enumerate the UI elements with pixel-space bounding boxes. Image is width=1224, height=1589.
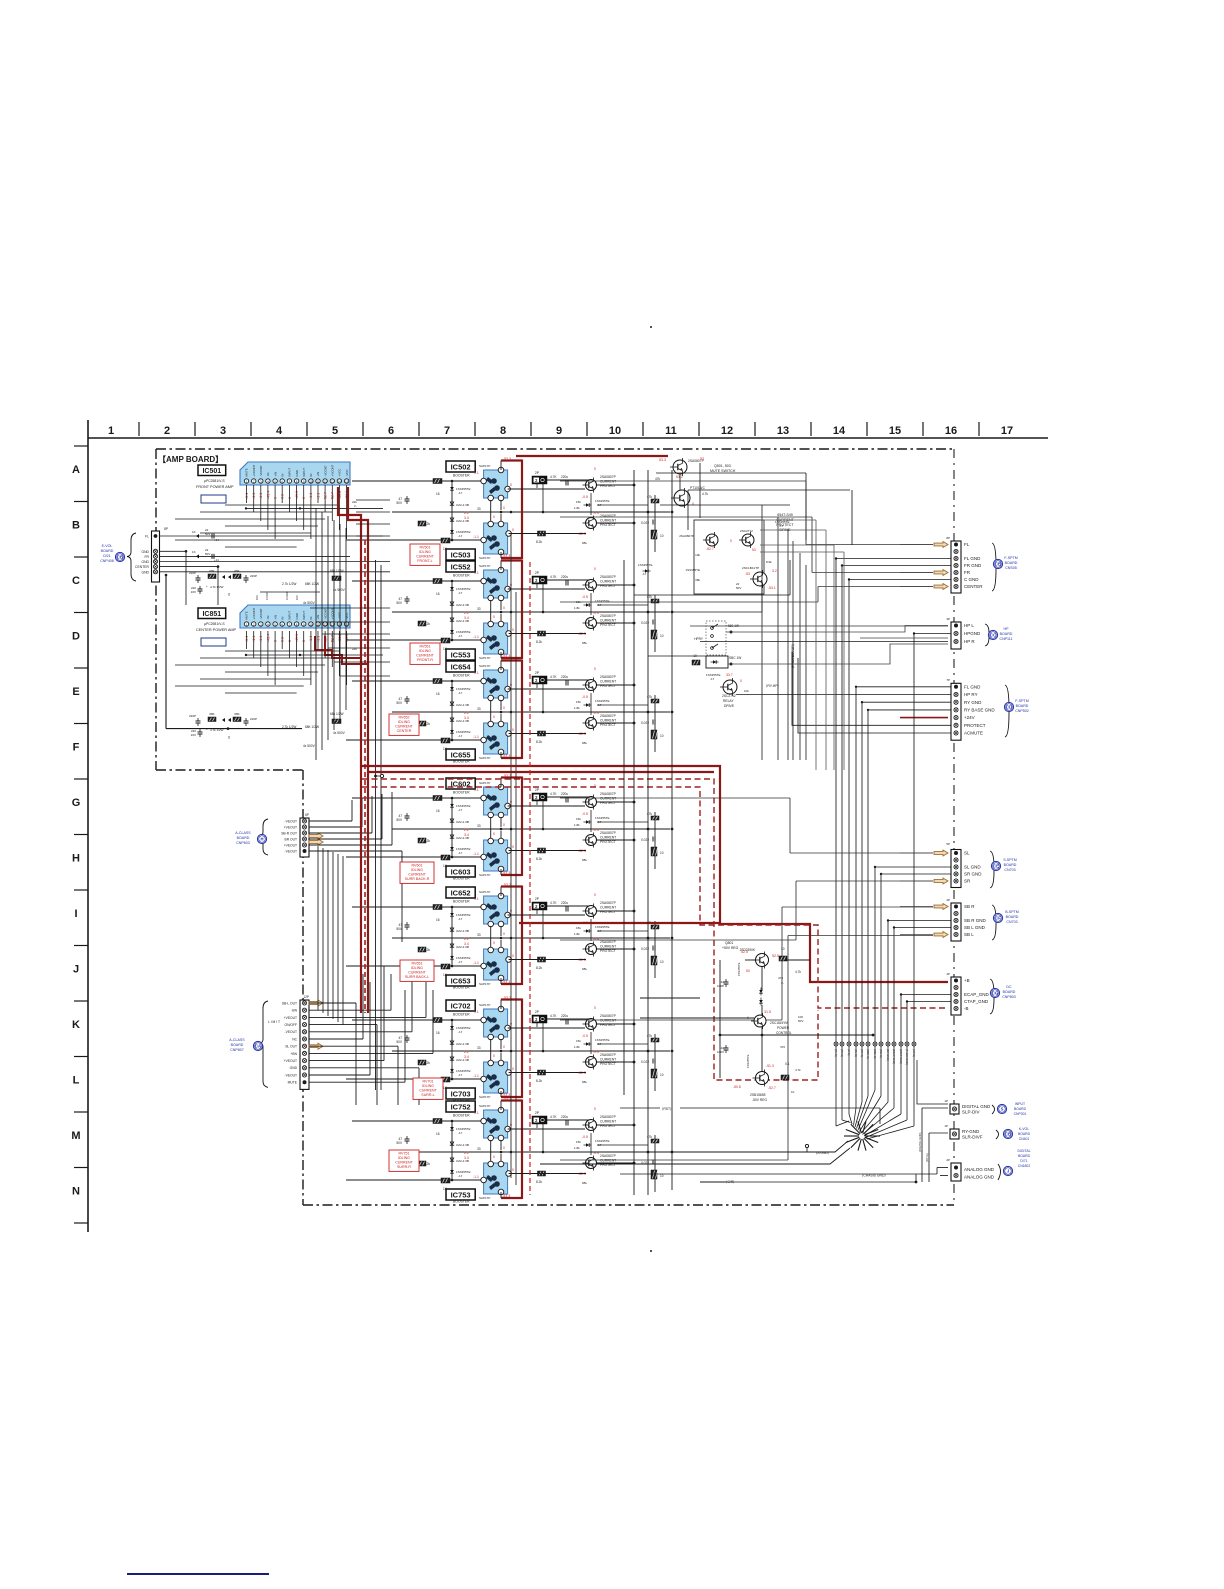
svg-text:1.1: 1.1 [474,671,479,675]
svg-text:CURRENT: CURRENT [600,945,616,949]
CNP111 circled ref [988,630,997,639]
svg-text:+VCONT: +VCONT [252,464,256,476]
svg-text:-17: -17 [458,960,463,964]
svg-text:220u: 220u [561,901,568,905]
svg-text:B-SPTM: B-SPTM [1005,910,1019,914]
svg-text:-17: -17 [458,1030,463,1034]
IC501 22k bus [246,507,383,509]
svg-text:CURRENT: CURRENT [600,1159,616,1163]
svg-text:-VCONT: -VCONT [323,465,327,476]
svg-text:F-SPTM: F-SPTM [1004,556,1017,560]
svg-text:53.2: 53.2 [676,475,683,479]
svg-text:50V: 50V [205,552,210,556]
middle rail 2 [633,470,635,1195]
svg-text:BOOSTER: BOOSTER [453,474,470,478]
svg-text:SAP17P: SAP17P [479,1003,490,1007]
svg-text:(C-G): (C-G) [847,1049,851,1056]
booster pair IC652/IC653 [392,883,670,990]
svg-text:3.4: 3.4 [464,833,469,837]
svg-text:SAP17P: SAP17P [479,464,490,468]
svg-text:-17: -17 [458,534,463,538]
svg-text:53.3: 53.3 [504,1097,511,1101]
svg-text:INPUT: INPUT [1015,1102,1025,1106]
svg-text:220P: 220P [250,717,257,721]
booster pair IC602/IC603 [392,774,670,881]
svg-text:CNP807: CNP807 [230,1048,244,1052]
svg-text:4.7k 1/2W: 4.7k 1/2W [210,585,224,589]
svg-text:(SBR-G): (SBR-G) [866,1049,870,1059]
a gnd stub [805,1144,808,1147]
svg-text:ANALOG GND: ANALOG GND [964,1167,995,1172]
svg-text:+14: +14 [214,538,219,542]
svg-text:15k: 15k [576,926,581,930]
svg-text:IN: IN [280,617,284,620]
connector CN703-S [951,850,961,888]
svg-text:-52.7: -52.7 [768,1086,776,1090]
svg-text:10: 10 [660,734,664,738]
svg-text:J: J [73,964,79,976]
svg-text:470: 470 [778,976,783,980]
connector CNP603 A-CLASS [300,818,309,857]
CNP603 arrows [309,833,323,839]
svg-text:SLR-DIVF: SLR-DIVF [962,1135,983,1140]
svg-text:4x 500V: 4x 500V [303,601,316,605]
svg-text:SURR BACK-L: SURR BACK-L [405,975,429,979]
svg-text:CURRENT: CURRENT [600,1120,616,1124]
svg-text:IC653: IC653 [451,976,471,985]
svg-text:10: 10 [660,1174,664,1178]
CN703S circled ref [991,861,1000,870]
svg-text:A-CLASS: A-CLASS [235,831,251,835]
svg-text:BOOSTER: BOOSTER [453,1200,470,1204]
board border left lower [302,770,304,1205]
svg-text:-1.1: -1.1 [473,635,479,639]
svg-text:1.1: 1.1 [474,897,479,901]
svg-text:4.7K: 4.7K [550,901,557,905]
svg-text:2SA0807P: 2SA0807P [600,1115,617,1119]
svg-text:PT1014(C: PT1014(C [690,486,706,490]
svg-text:0: 0 [512,845,514,849]
svg-text:68k: 68k [582,1080,587,1084]
svg-text:1.8k: 1.8k [574,823,580,827]
connector CNP502 [951,683,961,740]
svg-text:8.2k: 8.2k [536,1079,542,1083]
svg-text:CURRENT: CURRENT [419,1089,437,1093]
svg-text:+VEOUT: +VEOUT [284,843,297,847]
svg-text:SB R: SB R [964,904,975,909]
svg-text:BOARD: BOARD [1000,632,1013,636]
svg-text:CNP408: CNP408 [100,559,114,563]
svg-text:2.2: 2.2 [464,1151,469,1155]
svg-text:-50.8: -50.8 [733,1085,741,1089]
rail junctions [647,511,650,514]
svg-text:A: A [72,464,80,476]
svg-text:4P: 4P [946,898,950,902]
svg-text:IDLING: IDLING [398,1156,410,1160]
svg-text:+IN: +IN [316,615,320,620]
svg-text:SB-L OUT: SB-L OUT [282,1001,297,1005]
hp l feed [690,625,905,627]
svg-text:220P: 220P [250,574,257,578]
svg-text:ECAP_GND: ECAP_GND [964,992,990,997]
svg-text:SAP17P: SAP17P [479,1196,490,1200]
svg-text:-52.3: -52.3 [578,1172,586,1176]
svg-text:8: 8 [500,425,506,437]
svg-text:E-VOL: E-VOL [102,544,113,548]
CN703B circled ref [993,913,1002,922]
svg-text:SBC 1W: SBC 1W [729,656,741,660]
svg-text:CENTER: CENTER [964,584,983,589]
svg-text:53.3: 53.3 [659,458,666,462]
svg-text:2.7k 1/2W: 2.7k 1/2W [282,582,296,586]
svg-text:-0.5: -0.5 [582,1135,588,1139]
svg-text:ON/OFF: ON/OFF [285,1023,297,1027]
svg-text:+24V: +24V [964,715,975,720]
transistor Q501 mute switch [673,460,687,474]
connector analog gnd [951,1163,961,1181]
svg-text:10: 10 [660,960,664,964]
svg-text:FRONT-L: FRONT-L [417,559,432,563]
svg-text:-IN: -IN [266,473,270,477]
svg-text:1SS355TE: 1SS355TE [638,563,653,567]
svg-text:(ECAP GND): (ECAP GND) [892,1049,896,1064]
connector digital gnd [950,1104,959,1114]
svg-text:UZ2-2.3B: UZ2-2.3B [456,1042,469,1046]
svg-text:0: 0 [594,1006,596,1010]
svg-text:D/21: D/21 [103,554,111,558]
connector ry-gnd [950,1129,959,1139]
svg-text:1.8k: 1.8k [574,1045,580,1049]
CNP603 wires [309,820,352,822]
svg-text:-VCONT: -VCONT [259,608,263,619]
svg-text:50V: 50V [798,1019,803,1023]
svg-text:CURRENT: CURRENT [600,836,616,840]
diode d1 [645,569,648,573]
svg-text:CNP301: CNP301 [1014,1112,1027,1116]
svg-text:SAP17P: SAP17P [479,656,490,660]
A-CLASS circled ref 2 [253,1041,262,1050]
svg-text:-17: -17 [458,1131,463,1135]
svg-text:+IN: +IN [273,615,277,620]
svg-text:1SS355TE: 1SS355TE [737,962,741,976]
svg-text:52.5: 52.5 [772,954,779,958]
svg-text:1.8k: 1.8k [574,606,580,610]
svg-text:UZ2-2.3B: UZ2-2.3B [456,703,469,707]
svg-text:50V: 50V [205,532,210,536]
svg-text:PROTECT: PROTECT [600,840,616,844]
svg-text:0: 0 [594,1107,596,1111]
svg-text:-52.7: -52.7 [706,547,714,551]
footer line [127,1573,269,1575]
relay HPRY [706,621,726,655]
svg-text:10: 10 [660,851,664,855]
svg-text:16V: 16V [191,590,196,594]
svg-text:-17: -17 [458,1073,463,1077]
signal feeds to connectors [805,481,807,545]
svg-text:BOARD: BOARD [1006,915,1019,919]
svg-text:10k: 10k [744,689,749,693]
svg-text:1.1: 1.1 [474,1111,479,1115]
trimmer RV551 box [410,643,440,664]
svg-text:M: M [71,1130,80,1142]
svg-text:BOARD: BOARD [1018,1132,1031,1136]
svg-text:RV501: RV501 [420,545,431,549]
svg-text:Q801: Q801 [725,941,733,945]
svg-text:68k: 68k [582,541,587,545]
svg-text:8.9k: 8.9k [766,560,772,564]
svg-text:BOOSTER: BOOSTER [453,986,470,990]
svg-text:IC503: IC503 [451,550,471,559]
svg-text:4.7k: 4.7k [795,970,801,974]
svg-text:CF: CF [995,916,1001,921]
svg-text:IC553: IC553 [451,650,471,659]
svg-text:68k: 68k [582,967,587,971]
svg-text:SURR BACK-R: SURR BACK-R [405,877,430,881]
svg-text:-1.1: -1.1 [473,535,479,539]
svg-text:-IN: -IN [266,616,270,620]
svg-text:0: 0 [493,615,495,619]
svg-text:CNP111: CNP111 [999,637,1012,641]
svg-text:7P: 7P [946,678,950,682]
svg-text:【AMP BOARD】: 【AMP BOARD】 [158,454,223,464]
svg-text:50V: 50V [396,701,403,705]
svg-text:-17: -17 [458,734,463,738]
svg-text:33: 33 [477,933,481,937]
svg-text:RY-GND: RY-GND [962,1129,980,1134]
svg-text:HP L: HP L [964,623,974,628]
svg-text:-53.3: -53.3 [502,754,510,758]
svg-text:16: 16 [436,1031,440,1035]
svg-text:⟨RST⟩: ⟨RST⟩ [662,1107,671,1111]
svg-text:6547-S49: 6547-S49 [777,513,793,517]
svg-text:2P: 2P [946,1158,950,1162]
bottom connector wires [620,1107,660,1109]
svg-text:0: 0 [512,1067,514,1071]
ground knot [865,1135,880,1137]
svg-text:FL GND: FL GND [964,556,981,561]
maroon dashed rail [364,540,366,1013]
IC501 pin wires [246,485,248,503]
svg-text:0: 0 [503,1146,505,1150]
svg-text:47k: 47k [655,477,661,481]
svg-text:CURRENT: CURRENT [600,1019,616,1023]
svg-text:38k: 38k [695,578,700,582]
svg-text:8.2k: 8.2k [536,640,542,644]
svg-text:53: 53 [700,457,704,461]
svg-text:-1.1: -1.1 [473,1074,479,1078]
svg-text:BOARD: BOARD [237,836,250,840]
svg-text:33.7: 33.7 [726,673,733,677]
board border top [156,448,954,450]
hp feeds [726,626,948,633]
svg-text:0: 0 [512,528,514,532]
svg-text:SAP17P: SAP17P [479,982,490,986]
svg-text:(FR-G): (FR-G) [840,1049,844,1057]
board border bottom [303,1204,954,1206]
svg-text:HPRY: HPRY [694,637,704,641]
svg-text:⟨RY-HP⟩: ⟨RY-HP⟩ [766,684,779,688]
svg-text:10: 10 [660,534,664,538]
svg-text:BOARD: BOARD [1018,1154,1031,1158]
trimmer RV501 box [410,544,440,565]
svg-text:BOARD: BOARD [1003,990,1016,994]
svg-text:16: 16 [436,492,440,496]
connector CN703-B [951,903,961,941]
svg-text:FRONT-R: FRONT-R [417,658,433,662]
svg-text:2P: 2P [535,1010,540,1014]
svg-text:2SA0807P: 2SA0807P [600,940,617,944]
svg-text:SB-R OUT: SB-R OUT [281,831,297,835]
svg-text:+VEOUT: +VEOUT [284,1059,297,1063]
svg-text:SAP17P: SAP17P [479,556,490,560]
svg-text:CURRENT: CURRENT [408,971,426,975]
gnd bus bundle [836,558,951,560]
svg-text:31: 31 [227,592,231,596]
svg-text:53.3: 53.3 [504,657,511,661]
wires into pair1 [356,499,390,501]
svg-text:FR: FR [964,570,971,575]
svg-text:C: C [72,575,80,587]
svg-text:53.3: 53.3 [504,774,511,778]
svg-text:31: 31 [227,735,231,739]
svg-text:68k: 68k [582,641,587,645]
svg-text:3.4: 3.4 [464,942,469,946]
ruler left line [87,420,89,1232]
svg-text:31.5: 31.5 [764,1010,771,1014]
svg-text:SURR-R: SURR-R [397,1165,411,1169]
svg-text:15k: 15k [576,500,581,504]
svg-text:2P: 2P [535,571,540,575]
svg-text:CURRENT: CURRENT [416,654,434,658]
svg-text:PROTECT: PROTECT [600,523,616,527]
svg-text:470: 470 [780,1045,785,1049]
svg-text:0: 0 [512,728,514,732]
svg-text:BOOSTER: BOOSTER [453,900,470,904]
svg-text:1.8k: 1.8k [574,706,580,710]
svg-text:CURRENT: CURRENT [600,519,616,523]
svg-text:(DIGITAL GND): (DIGITAL GND) [918,1133,922,1152]
svg-text:SL GND: SL GND [964,865,981,870]
red dashed vertical A [529,562,531,1195]
connector CNP111 [951,622,961,649]
svg-text:-0.5: -0.5 [582,595,588,599]
svg-text:DRIVE: DRIVE [724,704,735,708]
svg-text:DIGITAL: DIGITAL [1018,1149,1031,1153]
svg-text:53: 53 [746,969,750,973]
svg-text:68K: 68K [209,712,214,716]
svg-text:CG: CG [992,991,998,996]
svg-text:0: 0 [512,954,514,958]
svg-text:+BN: +BN [290,1052,297,1056]
svg-text:0: 0 [594,667,596,671]
svg-text:CB: CB [117,555,123,560]
svg-text:BOOSTER: BOOSTER [453,674,470,678]
svg-text:2.2: 2.2 [464,711,469,715]
svg-text:FL: FL [964,542,970,547]
connector CNP807 A-CLASS [300,1000,309,1089]
svg-text:2SA0807P: 2SA0807P [679,534,694,538]
svg-text:IN: IN [309,617,313,620]
svg-text:K: K [72,1019,80,1031]
svg-text:50V: 50V [736,586,741,590]
svg-text:PROTECT: PROTECT [600,723,616,727]
svg-text:4P: 4P [946,972,950,976]
svg-text:F: F [73,742,80,754]
svg-text:0: 0 [730,539,732,543]
svg-text:6: 6 [388,425,394,437]
svg-text:15k: 15k [576,700,581,704]
A-CLASS riser bundle [317,846,319,1010]
svg-text:CTAP_GND: CTAP_GND [964,999,989,1004]
svg-text:2SA0807P: 2SA0807P [600,831,617,835]
svg-text:RV551: RV551 [420,644,431,648]
svg-text:BOARD: BOARD [1016,704,1029,708]
svg-text:53.3: 53.3 [504,883,511,887]
svg-text:SAP17P: SAP17P [479,564,490,568]
svg-text:0: 0 [503,1045,505,1049]
svg-text:D/71: D/71 [1020,1159,1027,1163]
svg-text:BOOSTER: BOOSTER [453,1114,470,1118]
svg-text:+VCONT: +VCONT [252,607,256,619]
stray dot [650,1250,652,1252]
svg-text:8P: 8P [946,536,950,540]
svg-text:68k 1/2W: 68k 1/2W [330,569,343,573]
svg-text:4.7K: 4.7K [550,575,557,579]
svg-text:BOARD: BOARD [101,549,114,553]
svg-text:2SA0807P: 2SA0807P [600,714,617,718]
svg-text:INPUT: INPUT [288,611,292,620]
svg-text:-0.4: -0.4 [593,1050,599,1054]
pair left bus extensions [352,480,392,482]
svg-text:-1.1: -1.1 [252,493,256,499]
svg-text:RV751: RV751 [399,1151,410,1155]
svg-text:1.1: 1.1 [474,471,479,475]
conn3 signal lines [736,694,951,696]
svg-text:BOARD: BOARD [1014,1107,1027,1111]
connector CNS05 [951,541,961,593]
svg-text:K-VOL: K-VOL [1019,1127,1029,1131]
svg-text:10: 10 [660,1073,664,1077]
svg-text:SAP17P: SAP17P [479,664,490,668]
svg-text:S-SPTM: S-SPTM [1003,858,1017,862]
E-VOL wires [160,535,384,537]
svg-text:14: 14 [833,425,846,437]
E-VOL circled ref [115,552,124,561]
svg-text:-0.5: -0.5 [582,812,588,816]
ruler top line [88,437,1048,439]
svg-text:-VCC: -VCC [345,612,349,619]
svg-text:3.4: 3.4 [464,1156,469,1160]
svg-text:IDLING: IDLING [411,868,423,872]
CNP803 circled ref [990,988,999,997]
svg-text:GND: GND [141,570,149,574]
svg-text:-0.5: -0.5 [582,495,588,499]
svg-text:1.1: 1.1 [474,1010,479,1014]
svg-text:-52.3: -52.3 [578,849,586,853]
svg-text:2.7k 1/2W: 2.7k 1/2W [282,725,296,729]
svg-text:-1.1: -1.1 [473,961,479,965]
svg-text:1.8k: 1.8k [574,506,580,510]
svg-text:100: 100 [255,595,259,600]
svg-text:CURRENT: CURRENT [600,619,616,623]
svg-text:CURRENT: CURRENT [600,1058,616,1062]
svg-text:-17: -17 [710,677,715,681]
svg-text:-0.5: -0.5 [582,1034,588,1038]
svg-text:HP RY: HP RY [964,692,978,697]
svg-text:RY GND: RY GND [964,700,982,705]
svg-text:CURRENT: CURRENT [416,555,434,559]
maroon mute feed [516,455,668,457]
